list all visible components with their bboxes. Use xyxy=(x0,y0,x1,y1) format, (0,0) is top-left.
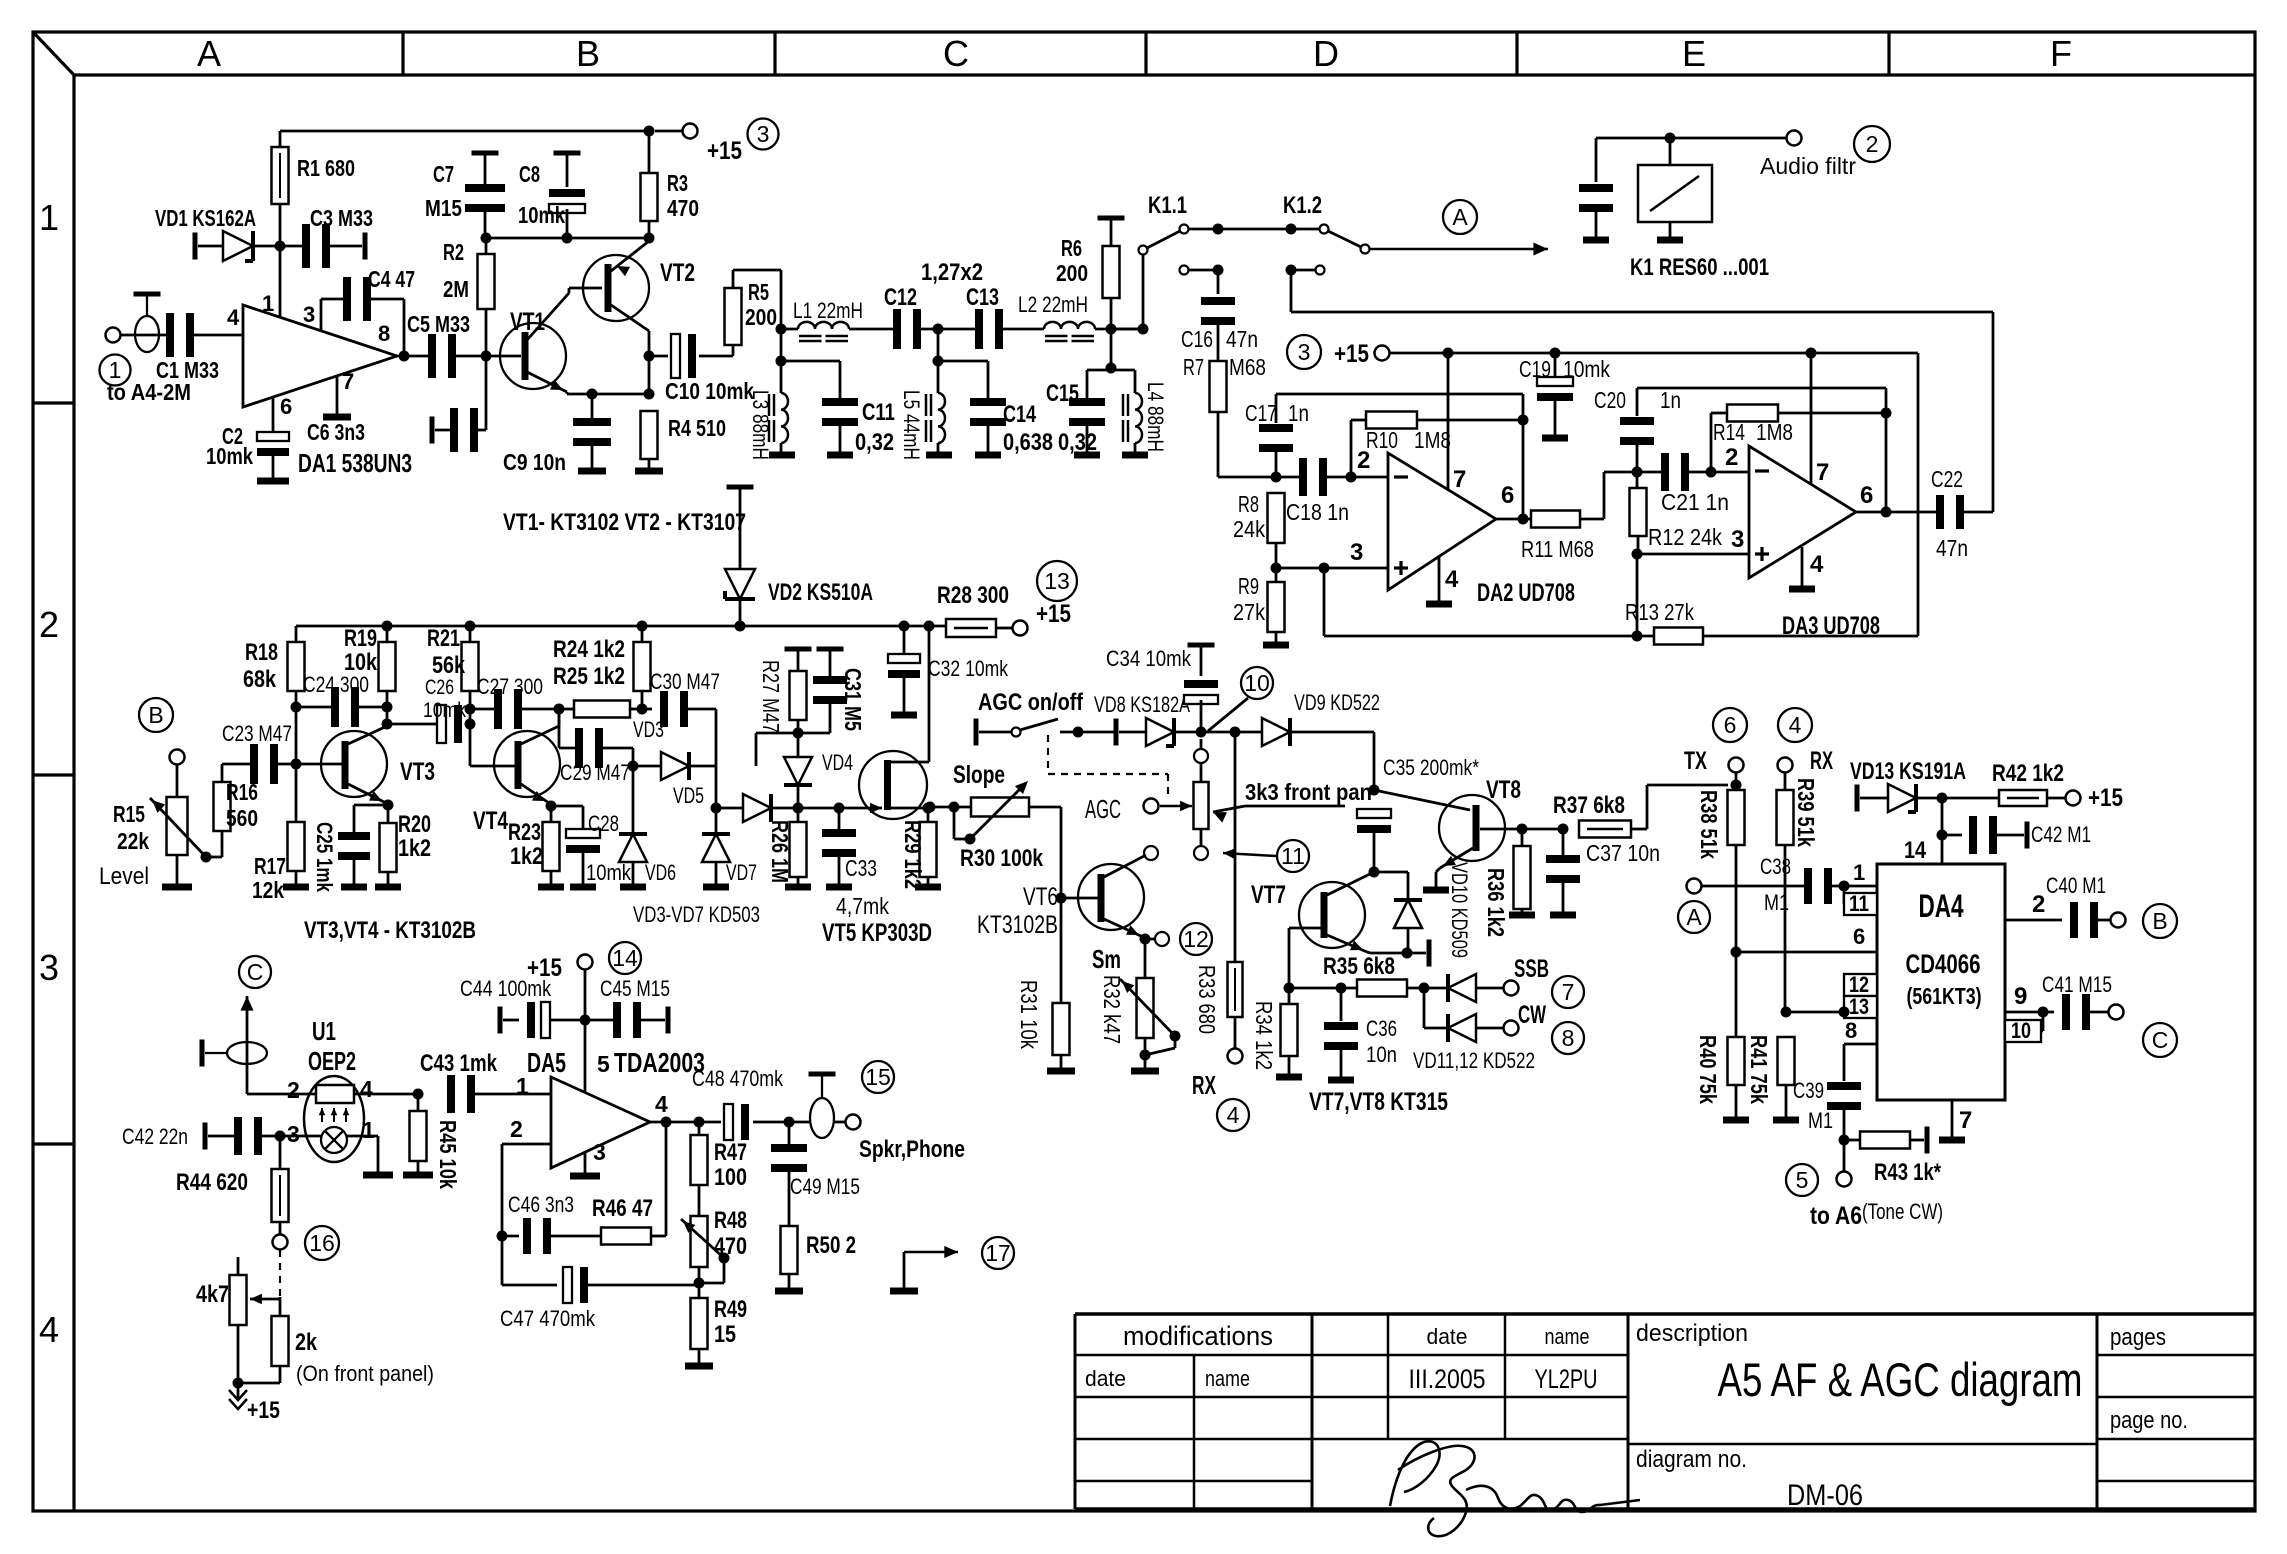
resistor R35 xyxy=(1357,980,1407,997)
svg-text:C16: C16 xyxy=(1181,326,1213,352)
resistor R8 xyxy=(1268,493,1285,543)
svg-text:3: 3 xyxy=(287,1121,300,1147)
svg-text:0,638: 0,638 xyxy=(1003,429,1053,456)
svg-text:C9 10n: C9 10n xyxy=(503,449,566,475)
resistor R40 xyxy=(1728,1037,1745,1085)
svg-text:C42 22n: C42 22n xyxy=(122,1124,188,1149)
svg-text:RX: RX xyxy=(1810,747,1833,775)
svg-text:C47 470mk: C47 470mk xyxy=(500,1306,596,1331)
terminal Audio filtr xyxy=(1787,131,1802,146)
svg-text:C30 M47: C30 M47 xyxy=(650,669,720,694)
svg-text:R32 k47: R32 k47 xyxy=(1099,975,1125,1044)
svg-text:+15: +15 xyxy=(1036,600,1071,628)
4k7 pot xyxy=(230,1275,247,1325)
svg-text:C11: C11 xyxy=(862,399,895,426)
svg-text:(On front panel): (On front panel) xyxy=(296,1361,434,1386)
svg-text:R15: R15 xyxy=(113,801,145,827)
svg-text:C49 M15: C49 M15 xyxy=(790,1174,860,1199)
svg-text:560: 560 xyxy=(226,805,258,831)
column tick D/E xyxy=(1515,32,1518,75)
svg-text:3: 3 xyxy=(593,1139,606,1165)
shield oval speaker xyxy=(809,1072,836,1077)
svg-text:4: 4 xyxy=(1810,551,1824,578)
svg-text:R31 10k: R31 10k xyxy=(1016,980,1042,1049)
resistor R19 xyxy=(379,642,396,691)
capacitor C14 xyxy=(970,398,1006,406)
terminal +15 (3) DA2 xyxy=(1287,335,1321,369)
svg-text:C1 M33: C1 M33 xyxy=(156,357,219,383)
svg-text:A5 AF & AGC diagram: A5 AF & AGC diagram xyxy=(1718,1353,2083,1406)
VT6 collector contact xyxy=(1144,846,1158,860)
svg-text:10mk: 10mk xyxy=(423,699,466,722)
svg-text:1n: 1n xyxy=(1288,400,1309,426)
Sm contact xyxy=(1145,938,1155,941)
svg-text:0,32: 0,32 xyxy=(1058,429,1097,456)
node VT4 collector xyxy=(554,704,565,715)
relay contact K1.2 xyxy=(1320,225,1329,234)
title block table xyxy=(1075,1312,2255,1316)
svg-text:R19: R19 xyxy=(344,625,377,652)
svg-text:L5 44mH: L5 44mH xyxy=(899,390,924,460)
svg-text:C43 1mk: C43 1mk xyxy=(420,1050,498,1077)
VT6 emitter xyxy=(1104,919,1143,937)
bias rail down xyxy=(1323,568,1326,636)
VT7 collector xyxy=(1327,873,1372,895)
svg-text:C21 1n: C21 1n xyxy=(1661,489,1729,515)
svg-text:R50 2: R50 2 xyxy=(806,1232,856,1259)
svg-text:C4 47: C4 47 xyxy=(368,266,415,292)
svg-text:R44 620: R44 620 xyxy=(176,1169,248,1196)
capacitor C41 xyxy=(2062,994,2070,1030)
svg-text:description: description xyxy=(1636,1320,1748,1347)
svg-text:R3: R3 xyxy=(667,170,688,196)
svg-text:R24 1k2: R24 1k2 xyxy=(553,636,625,663)
svg-text:R10: R10 xyxy=(1366,427,1398,453)
svg-text:TX: TX xyxy=(1684,747,1707,775)
svg-text:1,27x2: 1,27x2 xyxy=(921,259,983,286)
svg-text:1k2: 1k2 xyxy=(398,835,431,862)
resistor R18 xyxy=(288,642,305,691)
node C42 xyxy=(1941,798,1944,835)
svg-text:2: 2 xyxy=(1725,444,1738,471)
zener VD8 xyxy=(1114,719,1119,746)
capacitor C23 xyxy=(250,744,258,784)
terminal B xyxy=(170,750,185,765)
capacitor C38 xyxy=(1804,868,1812,904)
circled 14 xyxy=(609,942,641,974)
resistor R13 xyxy=(1654,628,1703,645)
circled C xyxy=(239,956,271,988)
svg-text:R45 10k: R45 10k xyxy=(435,1120,461,1189)
svg-text:C23 M47: C23 M47 xyxy=(222,721,292,746)
circled 4 RX xyxy=(1217,1099,1249,1131)
capacitor C18 xyxy=(1276,476,1301,479)
pot R32 xyxy=(1144,939,1147,978)
svg-text:R25 1k2: R25 1k2 xyxy=(553,663,625,690)
VT3 collector xyxy=(348,726,387,744)
circled 2 xyxy=(1854,126,1890,162)
svg-text:VD1 KS162A: VD1 KS162A xyxy=(155,205,256,231)
resistor R27 xyxy=(785,647,812,652)
svg-text:date: date xyxy=(1427,1324,1468,1349)
resistor R24 xyxy=(634,642,651,691)
resistor R14 xyxy=(1710,413,1713,472)
svg-text:4: 4 xyxy=(39,1309,59,1350)
diode VD12 CW xyxy=(1423,988,1426,1028)
IC DA4 box xyxy=(1877,864,2005,1100)
inductor L5 44mH xyxy=(938,393,945,443)
svg-text:100: 100 xyxy=(714,1164,747,1191)
svg-text:VD11,12 KD522: VD11,12 KD522 xyxy=(1413,1048,1535,1073)
terminal Spkr xyxy=(846,1115,861,1130)
svg-text:R16: R16 xyxy=(226,779,258,805)
terminal A xyxy=(1687,879,1702,894)
svg-text:B: B xyxy=(2152,908,2167,934)
shield oval input xyxy=(135,316,159,352)
bias to R13 xyxy=(1636,554,1639,636)
svg-text:4: 4 xyxy=(360,1076,373,1102)
resistor R39 xyxy=(1784,772,1787,790)
capacitor C49 xyxy=(788,1122,791,1144)
svg-text:R4 510: R4 510 xyxy=(668,415,726,441)
K1.1 lower contact row xyxy=(1180,266,1189,275)
svg-text:R35 6k8: R35 6k8 xyxy=(1323,953,1395,980)
svg-text:2M: 2M xyxy=(443,276,469,302)
svg-text:R8: R8 xyxy=(1238,491,1259,517)
svg-text:10mk: 10mk xyxy=(518,202,565,228)
circled 15 xyxy=(862,1061,894,1093)
diode VD7 xyxy=(715,766,718,833)
svg-text:22k: 22k xyxy=(117,828,149,854)
node VD8/VD9/C34 xyxy=(1196,727,1207,738)
VT4 emitter xyxy=(521,784,549,803)
node C12/C13 xyxy=(933,324,944,335)
resistor R5 xyxy=(732,345,735,356)
svg-text:R1 680: R1 680 xyxy=(297,155,355,181)
pot 3k3 xyxy=(1194,749,1208,763)
svg-text:C17: C17 xyxy=(1245,400,1277,426)
node R24/C30 xyxy=(637,704,648,715)
DA5 output node xyxy=(661,1117,672,1128)
pin2 wire xyxy=(247,1093,316,1096)
svg-text:1M8: 1M8 xyxy=(1414,427,1451,453)
circled B xyxy=(139,698,173,732)
node DA2 pin2 xyxy=(1346,472,1357,483)
switch rail xyxy=(1189,228,1319,231)
capacitor C20 xyxy=(1636,388,1639,416)
svg-text:VD3-VD7 KD503: VD3-VD7 KD503 xyxy=(633,902,760,927)
svg-text:1: 1 xyxy=(362,1117,375,1143)
resistor R38 xyxy=(1735,785,1738,790)
capacitor C46 xyxy=(502,1235,519,1238)
pin 8 wire xyxy=(1844,1043,1877,1046)
resistor R3 xyxy=(641,173,658,221)
resistor R23 xyxy=(550,806,553,822)
svg-text:3: 3 xyxy=(303,302,315,327)
capacitor C5 xyxy=(428,334,436,378)
node R29 xyxy=(923,803,934,814)
row tick 1/2 xyxy=(33,401,74,404)
svg-text:VT3: VT3 xyxy=(400,758,435,786)
resistor R34 xyxy=(1288,988,1291,1004)
VT8 base link xyxy=(1374,790,1470,810)
node R4 xyxy=(644,389,655,400)
column tick E/F xyxy=(1887,32,1890,75)
transistor VT3 xyxy=(321,731,387,797)
node R48/R49/C47 xyxy=(694,1278,705,1289)
transistor VT8 xyxy=(1439,795,1505,861)
capacitor C43 xyxy=(447,1075,455,1113)
svg-text:5: 5 xyxy=(597,1051,610,1077)
svg-text:R12 24k: R12 24k xyxy=(1648,524,1722,550)
capacitor C32 xyxy=(903,626,906,658)
capacitor C8 xyxy=(554,151,581,156)
svg-text:M1: M1 xyxy=(1764,890,1789,915)
capacitor C45 xyxy=(585,1019,613,1022)
wire to C16 xyxy=(1217,270,1220,294)
svg-text:C15: C15 xyxy=(1046,380,1079,407)
capacitor C4 feedback xyxy=(320,299,323,331)
capacitor C42 xyxy=(1942,834,1962,837)
diode VD3 xyxy=(633,765,660,768)
svg-text:name: name xyxy=(1545,1324,1590,1349)
svg-text:1M8: 1M8 xyxy=(1756,419,1793,445)
svg-text:C20: C20 xyxy=(1594,387,1626,413)
R34 R35 rail xyxy=(1284,983,1295,994)
svg-text:24k: 24k xyxy=(1233,516,1265,542)
capacitor C36 xyxy=(1340,988,1343,1021)
resistor R12 xyxy=(1630,488,1647,536)
svg-text:R42 1k2: R42 1k2 xyxy=(1992,760,2064,787)
terminal 5 xyxy=(1843,1140,1846,1171)
svg-text:1: 1 xyxy=(39,197,59,238)
capacitor C33 xyxy=(838,808,841,831)
svg-text:13: 13 xyxy=(1849,994,1869,1019)
svg-text:R36 1k2: R36 1k2 xyxy=(1483,868,1509,937)
loop C20 to DA3 out xyxy=(1637,387,1886,390)
node VD4/VD5/R26 xyxy=(793,803,804,814)
svg-text:VT1- KT3102 VT2 - KT3107: VT1- KT3102 VT2 - KT3107 xyxy=(503,509,746,536)
svg-text:C12: C12 xyxy=(884,284,917,311)
wire to C14 xyxy=(938,360,988,363)
svg-text:12k: 12k xyxy=(252,877,284,903)
svg-text:A: A xyxy=(1686,904,1702,930)
VT8 emitter xyxy=(1440,848,1473,868)
capacitor C40 xyxy=(2070,902,2078,938)
row tick 2/3 xyxy=(33,773,74,776)
circled 3 xyxy=(748,119,779,150)
resistor R25 xyxy=(574,701,630,718)
transistor VT4 xyxy=(494,731,560,797)
resistor R20 xyxy=(387,805,390,823)
svg-text:F: F xyxy=(2050,33,2072,74)
svg-text:7: 7 xyxy=(1453,466,1466,493)
svg-text:3: 3 xyxy=(1298,339,1311,365)
loop down to pin6 xyxy=(1522,394,1525,519)
zener VD2 xyxy=(727,485,754,490)
capacitor C35 xyxy=(1357,809,1391,818)
resistor R7 xyxy=(1210,361,1227,412)
column tick A/B xyxy=(401,32,404,75)
svg-text:13: 13 xyxy=(1044,568,1070,594)
svg-text:(561KT3): (561KT3) xyxy=(1907,983,1982,1009)
resistor R1 xyxy=(272,147,289,204)
svg-text:2: 2 xyxy=(1866,131,1879,157)
svg-text:K1.1: K1.1 xyxy=(1148,192,1187,219)
svg-text:17: 17 xyxy=(985,1240,1011,1266)
DA3 output node xyxy=(1881,507,1892,518)
svg-text:200: 200 xyxy=(1056,260,1088,286)
capacitor C16 xyxy=(1201,297,1235,305)
svg-text:C22: C22 xyxy=(1931,466,1963,492)
capacitor C17 xyxy=(1259,424,1293,432)
svg-text:CW: CW xyxy=(1518,1001,1546,1029)
capacitor C7 xyxy=(472,151,499,156)
circled 6 TX xyxy=(1713,708,1747,742)
+15 rail top xyxy=(279,131,282,147)
svg-text:R30 100k: R30 100k xyxy=(960,845,1044,872)
node C49 xyxy=(784,1117,795,1128)
svg-text:1: 1 xyxy=(1853,860,1865,885)
+15 rail DA2/DA3 xyxy=(1390,352,1918,355)
emitter wires xyxy=(386,803,388,805)
node R27/C31/VD4 xyxy=(793,728,804,739)
svg-text:470: 470 xyxy=(714,1233,747,1260)
resistor R46 xyxy=(601,1228,651,1245)
svg-text:date: date xyxy=(1085,1366,1126,1391)
svg-text:15: 15 xyxy=(714,1321,736,1348)
svg-text:name: name xyxy=(1205,1366,1250,1391)
svg-text:10n: 10n xyxy=(1366,1042,1397,1067)
op-amp DA1 xyxy=(243,305,397,407)
svg-text:47n: 47n xyxy=(1936,535,1968,561)
capacitor C9 xyxy=(591,394,594,421)
svg-text:RX: RX xyxy=(1192,1070,1216,1100)
circled 1 xyxy=(100,355,131,386)
svg-text:10: 10 xyxy=(1244,670,1270,696)
svg-text:7: 7 xyxy=(342,369,354,394)
svg-text:4: 4 xyxy=(1227,1102,1240,1128)
svg-text:6: 6 xyxy=(1860,482,1873,509)
svg-text:C31 M5: C31 M5 xyxy=(840,668,866,731)
VT1 emitter xyxy=(527,372,567,392)
svg-text:3: 3 xyxy=(1350,539,1363,566)
svg-text:C42 M1: C42 M1 xyxy=(2031,822,2091,847)
capacitor C10 xyxy=(649,355,668,358)
resistor R10 xyxy=(1366,412,1417,429)
svg-text:C19: C19 xyxy=(1519,356,1551,382)
VT7 emitter xyxy=(1327,935,1367,952)
svg-text:VT3,VT4 - KT3102B: VT3,VT4 - KT3102B xyxy=(304,917,476,944)
resistor R33 xyxy=(1234,732,1237,962)
svg-text:R26 1M: R26 1M xyxy=(767,820,793,883)
svg-text:VD2 KS510A: VD2 KS510A xyxy=(768,579,873,606)
resistor R47 xyxy=(698,1122,701,1135)
svg-text:R13 27k: R13 27k xyxy=(1625,599,1694,625)
svg-text:C27 300: C27 300 xyxy=(477,674,543,699)
svg-text:R21: R21 xyxy=(427,625,460,652)
svg-text:R29 1k2: R29 1k2 xyxy=(900,820,926,889)
pin4 wire xyxy=(354,1093,418,1096)
terminal RX xyxy=(1778,758,1793,773)
DA3 pin4 ground xyxy=(1801,547,1804,586)
wire VD9 to C35 xyxy=(1373,732,1376,790)
svg-text:R9: R9 xyxy=(1238,573,1259,599)
svg-text:D: D xyxy=(1313,33,1339,74)
svg-text:R49: R49 xyxy=(714,1296,747,1323)
svg-text:E: E xyxy=(1682,33,1706,74)
DA2 pin4 ground xyxy=(1438,557,1441,601)
node C33 branch xyxy=(798,807,856,810)
svg-text:R14: R14 xyxy=(1713,419,1745,445)
ground arrow 17 xyxy=(904,1251,958,1254)
svg-text:C34 10mk: C34 10mk xyxy=(1106,646,1192,671)
resistor R49 xyxy=(691,1298,708,1349)
svg-text:DA4: DA4 xyxy=(1919,888,1964,924)
svg-text:4: 4 xyxy=(655,1091,668,1117)
diode VD4 xyxy=(797,733,800,757)
svg-text:C41 M15: C41 M15 xyxy=(2042,972,2112,997)
svg-text:DA5: DA5 xyxy=(527,1047,566,1078)
node R18/C24 xyxy=(291,702,302,713)
svg-text:C: C xyxy=(2152,1027,2169,1053)
svg-text:1: 1 xyxy=(262,291,274,316)
capacitor C48 xyxy=(724,1104,733,1140)
svg-text:C13: C13 xyxy=(966,284,999,311)
capacitor C21 xyxy=(1637,471,1663,474)
node L3 branch xyxy=(776,356,787,367)
capacitor C31 xyxy=(817,647,844,652)
optocoupler U1 xyxy=(304,1076,364,1162)
arrow up to C xyxy=(246,1008,249,1094)
svg-text:C48 470mk: C48 470mk xyxy=(692,1066,784,1091)
svg-text:VT1: VT1 xyxy=(510,308,545,336)
svg-text:6: 6 xyxy=(280,394,292,419)
svg-text:R40 75k: R40 75k xyxy=(1695,1035,1721,1104)
svg-text:R2: R2 xyxy=(443,239,464,265)
svg-text:6: 6 xyxy=(1501,482,1514,509)
pin 9 wire xyxy=(2005,1011,2054,1014)
svg-text:C45 M15: C45 M15 xyxy=(600,976,670,1001)
svg-text:11: 11 xyxy=(1849,891,1869,916)
svg-text:K1.2: K1.2 xyxy=(1283,192,1322,219)
svg-text:VT6: VT6 xyxy=(1023,883,1058,911)
svg-text:R47: R47 xyxy=(714,1139,747,1166)
VT7 base xyxy=(1289,927,1321,930)
svg-text:9: 9 xyxy=(2014,983,2027,1010)
svg-text:B: B xyxy=(148,702,163,728)
resistor R21 xyxy=(462,642,479,691)
svg-text:7: 7 xyxy=(1959,1107,1972,1134)
relay coil capacitor xyxy=(1595,138,1598,182)
node R6 bottom xyxy=(1106,324,1117,335)
resistor R4 xyxy=(641,411,658,459)
resistor R37 xyxy=(1579,821,1631,838)
svg-text:5: 5 xyxy=(1796,1167,1809,1193)
capacitor C30 xyxy=(642,708,652,711)
svg-text:4: 4 xyxy=(1789,712,1802,738)
svg-text:3: 3 xyxy=(757,121,770,147)
svg-text:R39 51k: R39 51k xyxy=(1793,778,1819,847)
svg-text:2: 2 xyxy=(510,1116,523,1142)
svg-text:6: 6 xyxy=(1853,924,1865,949)
svg-text:M15: M15 xyxy=(425,195,462,221)
resistor R43 xyxy=(1844,1139,1860,1142)
svg-text:K1 RES60 ...001: K1 RES60 ...001 xyxy=(1630,254,1769,281)
capacitor C13 xyxy=(975,309,983,349)
svg-text:M1: M1 xyxy=(1808,1108,1833,1133)
svg-text:C6 3n3: C6 3n3 xyxy=(307,419,365,445)
